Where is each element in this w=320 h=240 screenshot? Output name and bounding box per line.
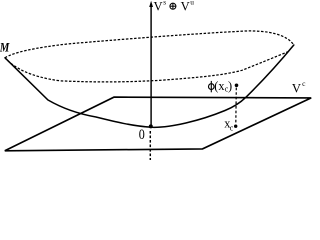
svg-text:u: u [190, 0, 194, 7]
svg-text:M: M [0, 41, 10, 55]
svg-text:): ) [228, 79, 232, 93]
svg-text:s: s [163, 0, 166, 7]
svg-text:V: V [181, 0, 190, 14]
svg-text:V: V [292, 82, 301, 96]
svg-text:(x: (x [214, 79, 225, 93]
svg-text:0: 0 [139, 126, 145, 142]
svg-text:c: c [230, 124, 234, 133]
svg-text:V: V [154, 0, 163, 14]
